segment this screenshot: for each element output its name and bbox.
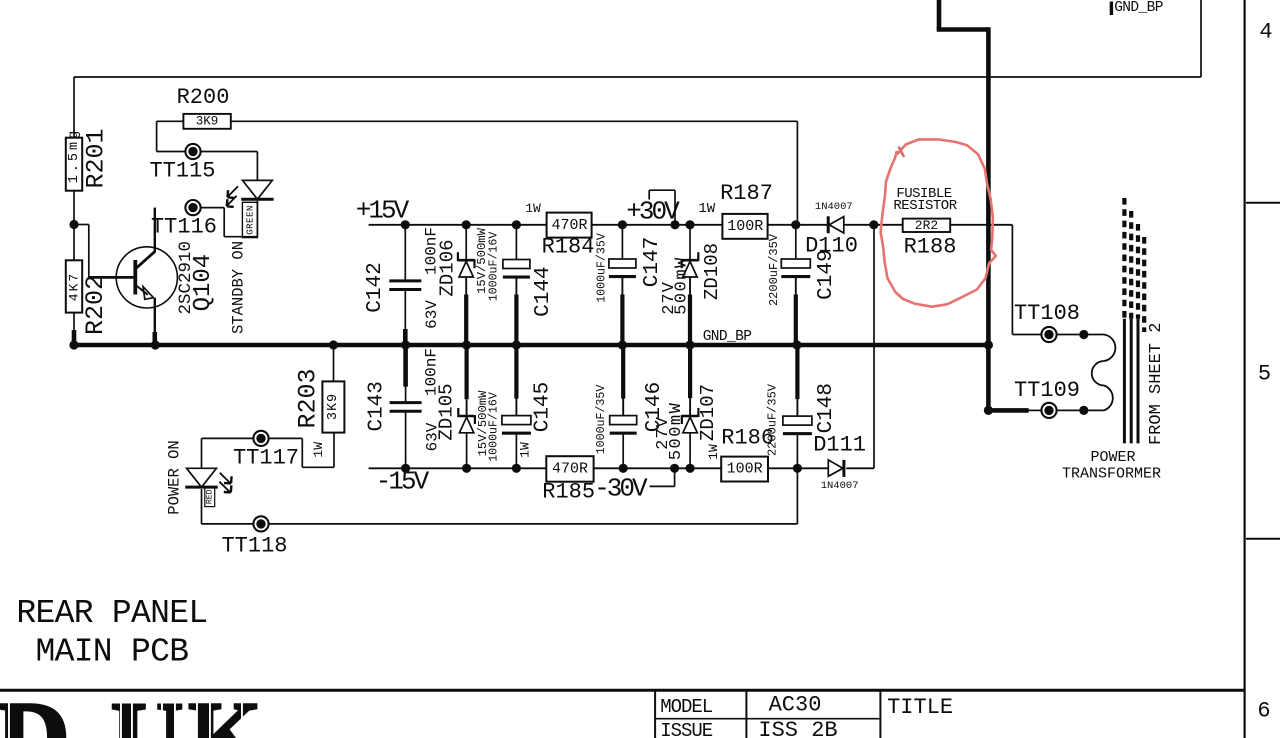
svg-text:2R2: 2R2: [915, 218, 938, 233]
svg-text:C144: C144: [532, 266, 555, 316]
svg-text:1W: 1W: [517, 442, 532, 458]
svg-text:3K9: 3K9: [326, 393, 341, 420]
svg-text:+30V: +30V: [626, 196, 680, 226]
svg-text:STANDBY ON: STANDBY ON: [230, 241, 248, 334]
svg-text:K: K: [188, 681, 262, 738]
svg-text:1N4007: 1N4007: [815, 201, 853, 213]
svg-text:RESISTOR: RESISTOR: [893, 198, 957, 214]
svg-text:63V: 63V: [423, 300, 441, 329]
svg-text:GND_BP: GND_BP: [1114, 0, 1163, 16]
svg-text:470R: 470R: [552, 461, 588, 478]
svg-text:TT115: TT115: [149, 159, 215, 184]
svg-text:ZD108: ZD108: [701, 243, 723, 300]
svg-text:MAIN PCB: MAIN PCB: [36, 634, 189, 671]
svg-text:100R: 100R: [727, 461, 763, 478]
svg-text:TT116: TT116: [151, 215, 217, 240]
svg-text:R203: R203: [293, 368, 322, 428]
svg-text:C148: C148: [815, 383, 838, 433]
svg-text:TT117: TT117: [233, 445, 299, 470]
svg-text:2200uF/35V: 2200uF/35V: [766, 383, 780, 456]
svg-text:RED: RED: [205, 489, 214, 504]
svg-text:470R: 470R: [551, 217, 587, 234]
svg-text:ZD105: ZD105: [435, 383, 457, 440]
svg-text:1000uF/16V: 1000uF/16V: [487, 232, 500, 302]
svg-text:R187: R187: [720, 181, 773, 206]
svg-text:ZD107: ZD107: [697, 384, 719, 441]
svg-text:5: 5: [1258, 362, 1271, 387]
svg-text:D: D: [0, 681, 70, 738]
svg-text:GND_BP: GND_BP: [703, 329, 752, 345]
svg-text:1W: 1W: [706, 444, 721, 460]
svg-text:100R: 100R: [727, 218, 763, 235]
svg-text:TT109: TT109: [1014, 378, 1080, 403]
svg-text:REAR PANEL: REAR PANEL: [16, 595, 207, 632]
svg-text:3K9: 3K9: [196, 115, 219, 129]
svg-text:1W: 1W: [698, 201, 715, 217]
svg-text:R200: R200: [177, 85, 230, 110]
svg-text:ZD106: ZD106: [437, 239, 459, 296]
svg-text:Q104: Q104: [190, 254, 217, 312]
svg-text:AC30: AC30: [769, 693, 822, 718]
svg-text:MODEL: MODEL: [660, 696, 713, 718]
svg-text:6: 6: [1257, 699, 1270, 724]
svg-text:R188: R188: [904, 235, 957, 260]
svg-text:500mW: 500mW: [673, 256, 692, 315]
svg-text:C145: C145: [532, 382, 555, 432]
svg-text:C143: C143: [366, 381, 389, 431]
svg-text:R201: R201: [82, 128, 111, 188]
svg-text:ISS 2B: ISS 2B: [758, 718, 837, 738]
svg-text:500mW: 500mW: [667, 402, 686, 461]
svg-text:1.5mg: 1.5mg: [67, 128, 82, 184]
svg-text:TITLE: TITLE: [887, 695, 953, 720]
svg-text:R185: R185: [542, 480, 595, 505]
svg-text:R184: R184: [542, 235, 595, 260]
svg-text:D111: D111: [813, 432, 866, 457]
svg-text:D110: D110: [805, 233, 858, 258]
svg-text:TT118: TT118: [221, 534, 287, 559]
svg-text:POWER ON: POWER ON: [165, 440, 183, 514]
svg-text:TT108: TT108: [1014, 301, 1080, 326]
svg-text:GREEN: GREEN: [244, 205, 255, 235]
svg-text:1000uF/35V: 1000uF/35V: [595, 385, 608, 455]
svg-text:TRANSFORMER: TRANSFORMER: [1062, 465, 1161, 482]
svg-text:1000uF/35V: 1000uF/35V: [595, 233, 608, 303]
svg-text:2200uF/35V: 2200uF/35V: [767, 233, 781, 306]
svg-text:POWER: POWER: [1090, 449, 1135, 466]
svg-text:4: 4: [1259, 20, 1272, 45]
svg-text:C142: C142: [364, 262, 387, 312]
svg-text:+15V: +15V: [356, 196, 410, 226]
svg-text:1W: 1W: [525, 201, 541, 216]
svg-text:1W: 1W: [311, 442, 326, 458]
svg-text:R202: R202: [81, 275, 110, 335]
svg-text:FROM SHEET 2: FROM SHEET 2: [1147, 323, 1166, 445]
svg-text:1000uF/16V: 1000uF/16V: [488, 392, 501, 462]
svg-text:1N4007: 1N4007: [821, 480, 859, 492]
svg-text:-30V: -30V: [594, 474, 648, 504]
svg-text:ISSUE: ISSUE: [660, 720, 713, 738]
svg-text:4K7: 4K7: [67, 272, 82, 301]
svg-text:C147: C147: [641, 237, 664, 287]
